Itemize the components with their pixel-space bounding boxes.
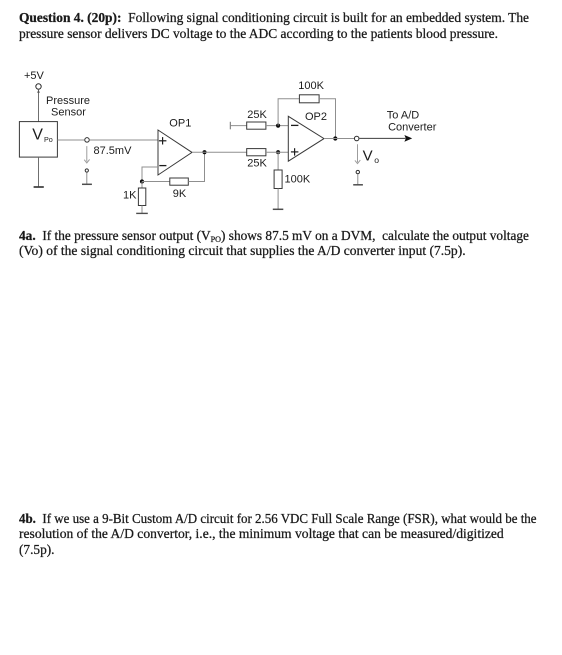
ground under sensor box xyxy=(34,186,44,188)
svg-text:o: o xyxy=(374,155,379,165)
output terminal Vo xyxy=(354,136,359,141)
OP1 minus sign xyxy=(159,165,166,167)
svg-text:Po: Po xyxy=(44,135,53,144)
junction OP1 feedback node xyxy=(140,179,144,183)
ground under 100K shunt xyxy=(273,208,284,210)
wire stub to top 25K xyxy=(230,125,246,127)
Vo arrow xyxy=(357,144,359,162)
wire bottom 25K to OP2 plus xyxy=(266,151,288,153)
svg-text:+5V: +5V xyxy=(24,70,45,82)
wire 100K shunt to ground xyxy=(277,189,279,210)
+5V terminal xyxy=(36,84,41,89)
junction OP1 output node xyxy=(202,150,206,154)
input stub tick for top 25K xyxy=(229,122,231,130)
wire sensor output to node xyxy=(57,139,84,141)
svg-text:OP2: OP2 xyxy=(305,111,327,123)
arrow to A/D converter xyxy=(404,135,412,142)
svg-text:87.5mV: 87.5mV xyxy=(94,145,133,157)
svg-text:Sensor: Sensor xyxy=(51,107,86,119)
wire 9K to OP1 output xyxy=(188,152,204,181)
svg-text:V: V xyxy=(32,127,43,144)
resistor 25K top xyxy=(247,122,266,129)
wire 1K to ground xyxy=(141,206,143,214)
svg-text:25K: 25K xyxy=(247,109,267,121)
wire OP1 minus input xyxy=(142,167,158,180)
resistor 100K feedback xyxy=(299,95,319,103)
OP2 plus sign xyxy=(291,151,299,153)
resistor 1K xyxy=(138,188,145,206)
wire +5V to sensor box xyxy=(38,89,40,121)
Vo reference terminal xyxy=(356,170,359,173)
ground under 1K xyxy=(136,212,148,214)
svg-text:9K: 9K xyxy=(173,188,187,200)
op-amp OP1 xyxy=(158,130,192,175)
svg-text:25K: 25K xyxy=(247,157,267,169)
svg-text:OP1: OP1 xyxy=(169,118,191,130)
wire OP2 output to terminal xyxy=(324,138,354,140)
svg-text:To A/D: To A/D xyxy=(387,110,419,122)
ground under Vo reference xyxy=(353,184,363,186)
wire OP1 output to bottom 25K xyxy=(192,151,247,153)
wire 100K feedback to output xyxy=(319,99,335,139)
pressure sensor box VPo xyxy=(19,122,57,158)
wire OP2 minus node to 100K feedback xyxy=(278,99,299,126)
svg-text:100K: 100K xyxy=(298,80,324,92)
svg-text:1K: 1K xyxy=(123,190,137,202)
svg-text:Pressure: Pressure xyxy=(46,95,90,107)
wire junction to 9K xyxy=(142,181,170,183)
wire node to OP1 plus input xyxy=(90,139,158,141)
junction OP2 output node xyxy=(333,136,337,140)
OP1 plus sign xyxy=(159,140,167,142)
wire sensor box to ground xyxy=(38,157,40,187)
resistor 9K xyxy=(170,178,189,185)
svg-text:100K: 100K xyxy=(285,174,311,186)
svg-text:V: V xyxy=(363,147,373,164)
resistor 100K shunt xyxy=(274,170,282,189)
wire OP2 plus node to 100K shunt xyxy=(277,152,279,170)
wire top 25K to OP2 minus xyxy=(266,125,288,127)
ground under probe xyxy=(82,183,92,185)
svg-text:Converter: Converter xyxy=(388,121,437,133)
question text paragraph xyxy=(19,11,551,42)
OP2 minus sign xyxy=(291,124,298,126)
question 4a text xyxy=(19,229,555,260)
wire terminal to A/D arrow xyxy=(360,137,406,139)
junction OP2 plus node xyxy=(276,150,280,154)
probe arrow at node xyxy=(86,146,88,161)
probe reference terminal xyxy=(85,169,88,172)
junction OP2 minus node xyxy=(276,124,280,128)
question 4b text xyxy=(19,512,562,558)
op-amp OP2 xyxy=(288,116,324,161)
node 87.5mV terminal xyxy=(85,138,90,143)
wire junction to 1K xyxy=(141,182,143,189)
resistor 25K bottom xyxy=(247,149,266,156)
